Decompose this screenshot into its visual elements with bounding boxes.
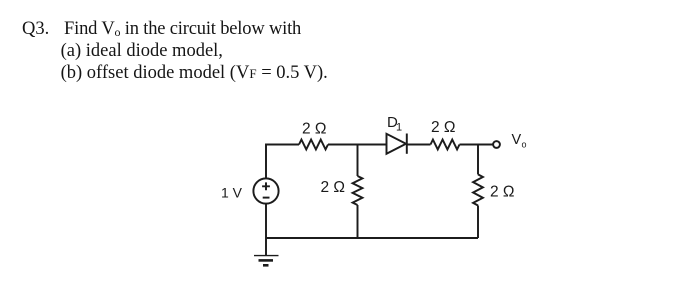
label 2 ohm for R2 xyxy=(321,179,346,196)
wire from diode D1 to resistor R3 xyxy=(407,144,431,146)
problem text line 1 xyxy=(22,20,49,39)
wire node A down to resistor R2 xyxy=(357,145,359,177)
label D1 for diode xyxy=(387,114,402,134)
label 2 ohm for R4 xyxy=(490,184,515,201)
ground bar 2 xyxy=(259,259,274,262)
voltage source minus sign xyxy=(263,197,270,199)
wire from node A to diode D1 anode xyxy=(358,144,387,146)
voltage source plus sign xyxy=(262,182,270,190)
ground bar 3 xyxy=(263,264,269,267)
svg-text:2 Ω: 2 Ω xyxy=(302,121,327,138)
bottom rail wire xyxy=(266,237,478,239)
resistor R2 (middle vertical 2 ohm) xyxy=(353,176,363,205)
problem text line 3 xyxy=(61,64,328,83)
label 2 ohm for R3 xyxy=(431,119,456,136)
voltage source V1 circle xyxy=(253,178,278,203)
wire from R1 to node A xyxy=(328,144,358,146)
label 2 ohm for R1 xyxy=(302,121,327,138)
wire node B down to resistor R4 xyxy=(477,145,479,175)
output terminal Vo (open circle) xyxy=(493,141,500,148)
label 1 V for source V1 xyxy=(221,185,243,201)
label Vo at output xyxy=(512,132,527,150)
svg-text:1 V: 1 V xyxy=(221,185,243,201)
problem text line 2 xyxy=(61,42,223,61)
wire R4 down to bottom rail xyxy=(477,206,479,239)
ground bar 1 xyxy=(254,255,279,257)
diode D1 cathode bar xyxy=(406,134,408,154)
wire from V1 plus terminal up and right to resistor R1 xyxy=(266,145,299,179)
wire R2 down to bottom rail xyxy=(357,205,359,238)
diode D1 triangle xyxy=(387,134,407,154)
svg-text:o: o xyxy=(522,140,527,150)
svg-text:2 Ω: 2 Ω xyxy=(431,119,456,136)
wire from V1 minus terminal down to ground xyxy=(265,204,267,256)
resistor R3 (top-right 2 ohm horizontal) xyxy=(431,140,460,150)
svg-text:V: V xyxy=(512,132,522,148)
resistor R4 (right vertical 2 ohm) xyxy=(473,174,483,205)
svg-text:1: 1 xyxy=(396,122,402,134)
svg-text:2 Ω: 2 Ω xyxy=(490,184,515,201)
svg-text:2 Ω: 2 Ω xyxy=(321,179,346,196)
wire from R3 to output terminal through node B xyxy=(460,144,494,146)
resistor R1 (top-left 2 ohm horizontal) xyxy=(299,140,328,150)
